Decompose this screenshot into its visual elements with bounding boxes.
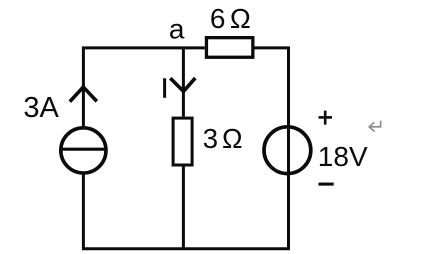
svg-text:a: a: [169, 14, 185, 45]
svg-text:3: 3: [203, 123, 218, 154]
svg-text:3A: 3A: [23, 92, 59, 124]
svg-text:6: 6: [210, 3, 226, 34]
svg-text:18V: 18V: [318, 141, 368, 172]
svg-text:Ω: Ω: [222, 123, 243, 154]
svg-text:Ω: Ω: [230, 3, 251, 34]
